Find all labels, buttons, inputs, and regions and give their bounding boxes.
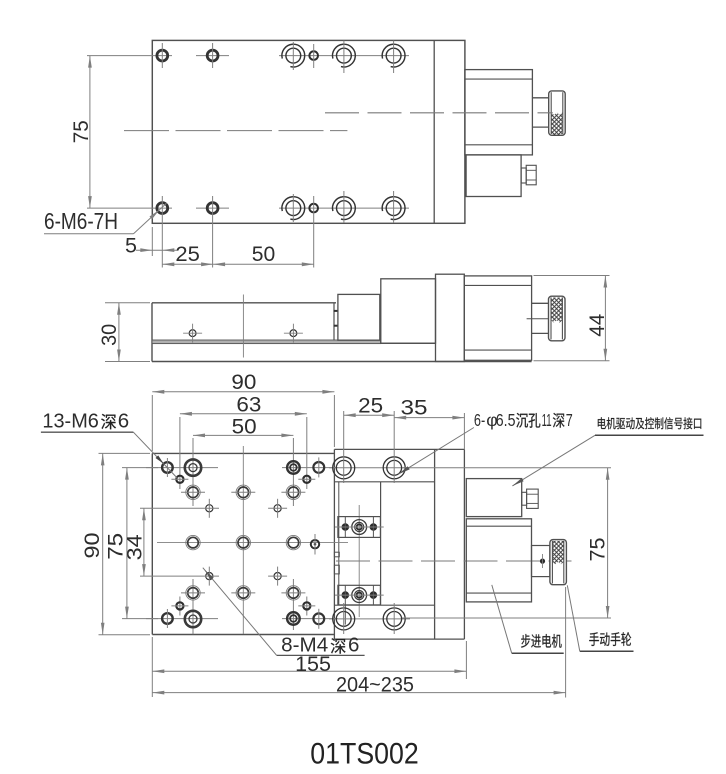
svg-text:6.5: 6.5 [496,410,516,430]
side view: step block 1 [338,294,380,340]
top view: M6-7H hole (5mm from edge), row 2 [157,196,168,268]
svg-text:6: 6 [118,409,129,432]
bottom view: handwheel knob [550,540,567,585]
svg-text:44: 44 [585,314,609,337]
top view: connector plug [521,165,536,185]
top view: counterbore hole a, row 2 [282,194,305,222]
dimension 204~235 (bottom) [152,587,565,698]
dimension 63 (bottom view top) [180,393,307,417]
svg-text:50: 50 [232,414,257,438]
bottom view: motor axis centerline (dashed) [336,560,572,562]
bottom view: pin hole right [311,534,319,555]
top view: counterbore hole b, row 1 [333,41,356,74]
dimension 75 (top view, left) [69,56,93,209]
side view: screw head left [183,324,202,343]
dimension 35 (bottom view top) [394,396,464,450]
label 8-M4 deep6 [203,568,365,657]
top view: connector block [466,155,521,197]
bottom view: counterbore hole BL [185,611,201,627]
bottom view: M6 hole grid r3c1 [181,586,205,600]
dimension 44 (side view) [534,276,610,361]
bottom view: connector plug [522,489,539,508]
bottom view: M6 hole grid r1c3 [281,485,305,499]
bottom view: center column line [242,446,244,634]
dimension 30 (side view) [97,303,150,362]
side view: vertical centerline [242,295,244,358]
bottom view: center row line [157,542,348,544]
bottom view: M6 hole grid r1c2 [231,485,255,499]
svg-text:5: 5 [125,233,137,257]
svg-text:6-: 6- [474,410,485,430]
bottom view: limit switch tabs [334,552,339,574]
bottom view: M6 hole 63-grid TL [171,476,188,483]
svg-text:30: 30 [97,324,121,346]
label manual handwheel [567,585,633,651]
top view: plate centerline (dashed) [124,130,347,132]
side view: step block 2 [381,279,436,343]
bottom view: counterbore column extension lines [344,411,395,634]
dimension 90 (bottom view left) [80,453,150,634]
bottom view: counterbore row lines [329,468,410,619]
dimension 25 (bottom view top) [344,394,395,418]
top view: M6-7H hole 25, row 1 [207,43,218,68]
dimension 5 (top view) [125,227,178,257]
label stepper motor [492,585,564,653]
top view: stage body plate [152,40,465,223]
dimension 90 (bottom view top) [152,370,334,451]
svg-text:6-M6-7H: 6-M6-7H [44,208,118,234]
bottom view: counterbore hole T2 [383,457,405,479]
side view: end plate [436,274,465,361]
bottom view: counterbore hole TL [185,459,201,475]
side view: slot edge and stop ticks [334,303,339,341]
svg-text:7: 7 [566,410,573,430]
bottom view: M6 hole 63-grid BR [298,602,315,609]
svg-text:01TS002: 01TS002 [310,738,418,771]
bottom view: M6 hole grid r1c1 [181,485,205,499]
label 6-phi6.5 counterbore 11 deep 7 [399,410,573,474]
bottom view: M6 hole grid r2c2 [236,535,250,549]
top view: counterbore hole c, row 2 [382,191,405,223]
bottom view: M4 hole BL [206,567,213,586]
top view: handwheel knob (half knurled) [549,91,566,135]
bottom view: base mid-section [334,449,464,639]
svg-text:8-M4: 8-M4 [281,634,328,657]
bottom view: bearing block top [335,517,384,538]
top view: motor axis centerline (dashed) [325,112,553,114]
bottom view: M6 hole 63-grid BL [171,602,188,609]
bottom view: through hole BR [287,612,300,625]
bottom view: through hole BL [162,609,173,628]
svg-text:11: 11 [542,410,552,430]
label 13-M6 deep6 [41,409,178,478]
bottom view: through hole TR [287,461,300,474]
top view: M6 small hole, row 1 [309,44,318,68]
bottom view: counterbore hole B1 [333,608,355,630]
svg-text:204~235: 204~235 [336,673,414,697]
bottom view: through hole small BR [313,609,324,629]
svg-text:25: 25 [175,242,200,266]
dimension 34 (bottom view left) [123,508,219,576]
top view: counterbore hole a, row 1 [282,42,305,70]
side view: motor body [464,276,531,360]
dimension 50 (top view) [213,242,314,266]
svg-text:75: 75 [69,120,93,143]
svg-text:63: 63 [236,393,261,417]
dimension 75 (bottom view left) [103,468,158,619]
bottom view: bearing block bottom [335,585,384,624]
bottom view: counterbore hole T1 [333,457,355,479]
bottom view: counterbore hole B2 [383,608,405,630]
top view: counterbore hole c, row 1 [382,41,405,74]
svg-text:25: 25 [358,394,383,418]
bottom view: M4 hole TR [268,499,287,518]
side view: screw head right [284,324,303,343]
svg-text:34: 34 [123,534,147,560]
bottom view: M6 hole 63-grid TR [298,476,315,483]
bottom view: through hole small TR [313,457,324,477]
bottom view: connector block [466,479,521,517]
svg-text:90: 90 [80,532,104,558]
bottom view: M6 hole grid r2c3 [286,535,300,549]
bottom view: M4 hole TL [206,499,213,518]
svg-text:50: 50 [252,242,276,266]
side view: base and carriage outline [152,303,532,362]
bottom view: M6 hole grid r2c1 [186,535,200,549]
dimension 25 (top view) [162,242,213,266]
side view: motor shaft [527,303,551,333]
bottom view: square stage plate [152,449,334,639]
bottom view: stepper motor body [466,519,531,602]
top view: M6-7H hole (5mm from edge), row 1 [157,43,168,68]
leader 6-M6-7H [44,203,167,234]
top view: motor body [465,70,533,155]
bottom view: hole column lines [180,417,307,634]
dimension 155 (bottom) [152,637,466,697]
bottom view: M4 hole BR [268,567,287,586]
svg-text:13-M6: 13-M6 [42,409,99,432]
bottom view: hole row lines [146,468,338,619]
top view: counterbore hole b, row 2 [333,191,356,223]
dimension 50 (bottom view top) [193,414,293,438]
bottom view: leadscrew centerline vertical [358,505,360,617]
bottom view: M6 hole grid r3c3 [281,586,305,600]
svg-text:6: 6 [348,634,359,657]
bottom view: end plate band [435,449,465,639]
label motor drive and control signal interface [512,417,703,486]
bottom view: through hole TL [162,458,173,477]
bottom view: M6 hole grid r3c2 [231,586,255,600]
svg-text:90: 90 [231,370,256,394]
bottom view: shaft and set screw [532,546,550,577]
side view: handwheel knob [549,296,566,341]
top view: motor shaft [532,98,548,127]
svg-text:75: 75 [585,537,609,561]
top view: M6-7H hole 25, row 2 [207,196,218,268]
svg-text:35: 35 [401,396,428,420]
top view: hole row crosshair lines [87,56,409,209]
dimension 75 (bottom view right) [402,468,611,618]
top view: M6 small hole, row 2 [309,196,318,268]
